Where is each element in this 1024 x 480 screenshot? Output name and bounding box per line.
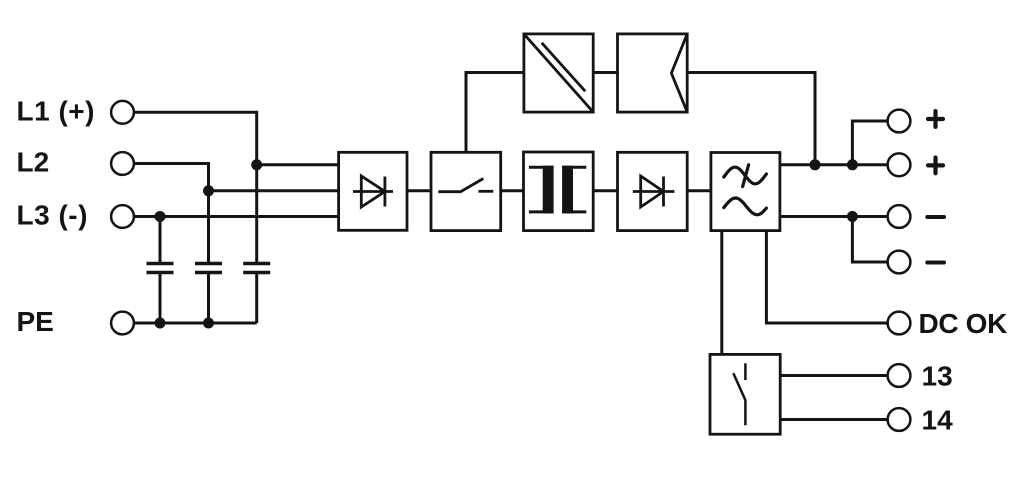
wire DC OK signal (766, 231, 887, 323)
wire diode to output filter (687, 189, 711, 192)
svg-text:DC OK: DC OK (919, 308, 1008, 339)
label plus 1 (928, 111, 943, 127)
capacitor C3 (243, 264, 270, 273)
terminal L1 (111, 101, 134, 124)
label minus 2 (927, 261, 944, 265)
feedback control block with chevron (618, 34, 688, 112)
junction dot L3 phase (155, 211, 166, 222)
wire PE rail (123, 322, 257, 325)
junction dot plus rail branch (847, 159, 858, 170)
terminal L2 (111, 152, 134, 175)
wire relay feed (720, 231, 723, 355)
svg-text:PE: PE (17, 306, 54, 337)
wire plus output rail (780, 163, 888, 166)
wire branch down to second minus terminal (852, 217, 887, 263)
wire L2 phase line to rectifier (209, 189, 339, 192)
terminal DC OK (888, 312, 911, 335)
rectifier block with diode symbol (339, 152, 407, 230)
wire branch up to first plus terminal (852, 121, 887, 165)
wire rectifier to switch (407, 189, 431, 192)
wire from C2 bottom plate to PE rail (207, 274, 210, 323)
wire from C3 bottom plate to PE rail (255, 274, 258, 323)
wire between feedback blocks (593, 71, 617, 74)
capacitor C1 (147, 264, 174, 273)
terminal PE (111, 312, 134, 335)
svg-text:14: 14 (922, 405, 954, 436)
label plus 2 (928, 158, 943, 174)
junction dot minus rail branch (847, 211, 858, 222)
wire feedback riser from switch to converter (466, 73, 524, 153)
junction dot PE rail at C2 (203, 318, 214, 329)
terminal minus 1 (888, 205, 911, 228)
svg-text:L1 (+): L1 (+) (17, 95, 95, 126)
terminal L3 (111, 205, 134, 228)
junction dot L1 phase (251, 159, 262, 170)
output filter block with AC suppression symbols (711, 153, 780, 231)
wire feedback return down to plus rail (687, 73, 815, 165)
wire L1 lead and vertical drop (123, 112, 257, 262)
wire relay contact to terminal 14 (780, 418, 887, 421)
wire switch to transformer (501, 189, 524, 192)
terminal 14 (888, 408, 911, 431)
wire transformer to diode (593, 189, 617, 192)
wire relay contact to terminal 13 (780, 374, 887, 377)
svg-text:L2: L2 (17, 147, 50, 178)
terminal plus 2 (888, 153, 911, 176)
junction dot L2 phase (203, 185, 214, 196)
output diode block (618, 152, 688, 230)
wire from C1 bottom plate to PE rail (159, 274, 162, 323)
junction dot PE rail at C1 (155, 318, 166, 329)
wire L2 lead and vertical drop (123, 164, 209, 263)
label minus 1 (927, 215, 944, 219)
junction dot feedback to plus rail (810, 159, 821, 170)
wire minus output rail (780, 215, 888, 218)
wire from L3 junction down to C1 (159, 217, 162, 263)
DC/DC converter feedback block (524, 34, 593, 112)
relay contact block (710, 354, 780, 434)
svg-text:L3 (-): L3 (-) (17, 200, 88, 231)
transformer block (524, 152, 594, 231)
terminal plus 1 (888, 110, 911, 133)
capacitor C2 (195, 264, 222, 273)
switch block (431, 152, 501, 230)
terminal 13 (888, 364, 911, 387)
wire L3 phase line to rectifier (123, 215, 339, 218)
terminal minus 2 (888, 251, 911, 274)
svg-text:13: 13 (922, 361, 953, 392)
wire L1 phase line to rectifier (257, 163, 339, 166)
